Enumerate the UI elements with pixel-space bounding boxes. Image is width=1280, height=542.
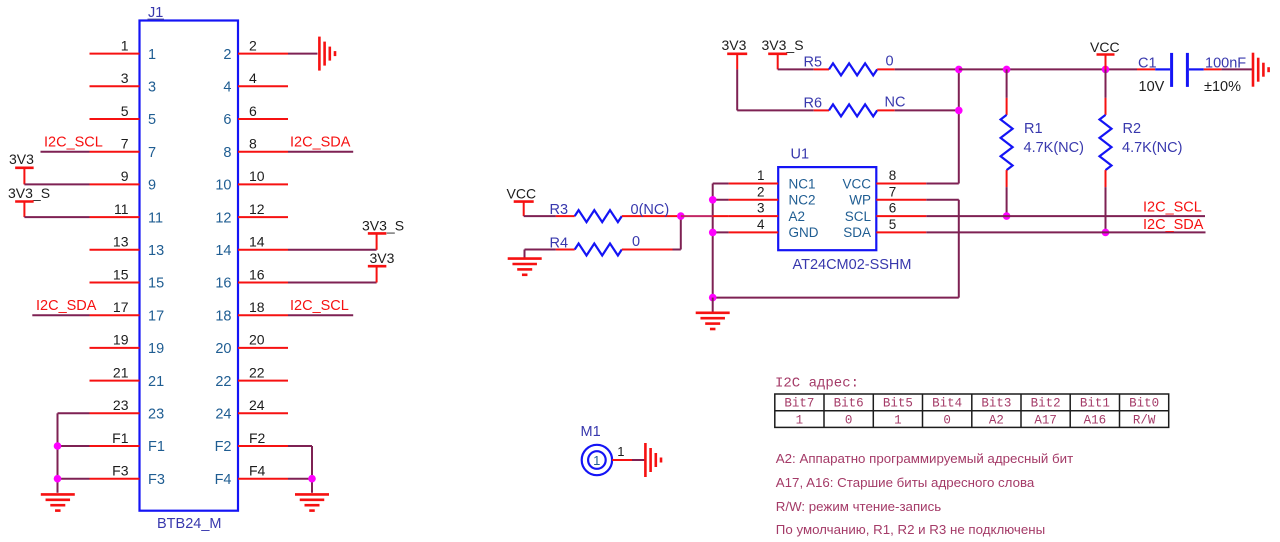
power port 3V3 (top) bbox=[722, 37, 748, 69]
wire pin16 to 3V3 bbox=[288, 266, 377, 282]
svg-text:AT24CM02-SSHM: AT24CM02-SSHM bbox=[793, 257, 912, 273]
wire R6 to vertical bbox=[895, 109, 959, 111]
J1 pin 22 (right) bbox=[215, 364, 288, 389]
resistor R2 bbox=[1100, 69, 1112, 232]
J1 pin 11 (left) bbox=[90, 201, 164, 226]
ground (below J1 left) bbox=[41, 494, 75, 510]
J1 pin 18 (right) bbox=[215, 299, 288, 324]
svg-text:Bit3: Bit3 bbox=[981, 397, 1011, 411]
svg-text:R5: R5 bbox=[804, 55, 823, 71]
svg-text:U1: U1 bbox=[791, 147, 810, 163]
resistor R6 bbox=[814, 104, 895, 116]
svg-text:3: 3 bbox=[121, 70, 129, 86]
svg-text:0: 0 bbox=[886, 54, 894, 70]
svg-text:NC2: NC2 bbox=[789, 193, 816, 208]
svg-text:R3: R3 bbox=[550, 202, 569, 218]
U1 pin 6 SCL bbox=[845, 201, 927, 224]
svg-text:16: 16 bbox=[249, 266, 265, 282]
svg-text:F4: F4 bbox=[215, 472, 232, 488]
svg-text:20: 20 bbox=[249, 332, 265, 348]
svg-text:14: 14 bbox=[215, 243, 231, 259]
svg-text:23: 23 bbox=[148, 407, 164, 423]
wire vertical R5/R6 to U1 VCC bbox=[926, 69, 959, 183]
svg-text:10: 10 bbox=[249, 168, 265, 184]
svg-text:F1: F1 bbox=[148, 439, 165, 455]
J1 pin 5 (left) bbox=[90, 103, 157, 128]
svg-text:4: 4 bbox=[223, 80, 231, 96]
power port VCC (top) bbox=[1090, 39, 1120, 69]
junction R2/SDA bbox=[1102, 229, 1110, 237]
svg-text:16: 16 bbox=[215, 276, 231, 292]
svg-text:R1: R1 bbox=[1024, 121, 1043, 137]
wire I2C_SDA net bbox=[926, 231, 1205, 233]
svg-text:3V3_S: 3V3_S bbox=[362, 218, 404, 234]
svg-text:5: 5 bbox=[121, 103, 129, 119]
svg-text:7: 7 bbox=[148, 145, 156, 161]
svg-text:10: 10 bbox=[215, 178, 231, 194]
svg-text:R2: R2 bbox=[1123, 121, 1142, 137]
resistor R5 bbox=[814, 63, 895, 75]
J1 pin 4 (right) bbox=[223, 70, 288, 95]
svg-text:7: 7 bbox=[889, 184, 897, 199]
svg-text:Bit4: Bit4 bbox=[932, 397, 962, 411]
junction at F4 bbox=[308, 475, 316, 483]
M1 pin 1 wire bbox=[612, 444, 644, 460]
J1 pin 21 (left) bbox=[90, 364, 165, 389]
power port 3V3_S (top) bbox=[762, 37, 804, 69]
J1 pin 16 (right) bbox=[215, 266, 288, 291]
svg-text:I2C_SCL: I2C_SCL bbox=[290, 298, 349, 314]
wire R4 up to R3 junction bbox=[673, 216, 681, 249]
svg-text:24: 24 bbox=[249, 397, 265, 413]
svg-text:0(NC): 0(NC) bbox=[631, 202, 670, 218]
J1 pin 6 (right) bbox=[223, 103, 288, 128]
wire pin23 to ground bus bbox=[58, 413, 90, 493]
svg-text:A2: A2 bbox=[789, 209, 806, 224]
svg-text:A17, A16: Старшие биты адресно: A17, A16: Старшие биты адресного слова bbox=[776, 475, 1035, 490]
svg-text:6: 6 bbox=[249, 103, 257, 119]
svg-text:I2C_SDA: I2C_SDA bbox=[1143, 217, 1204, 233]
resistor R4 bbox=[556, 244, 673, 256]
junction R1 top bbox=[1003, 66, 1011, 74]
svg-text:1: 1 bbox=[121, 37, 129, 53]
svg-text:1: 1 bbox=[593, 453, 600, 468]
wire GND under U1 to WP bbox=[713, 200, 959, 298]
J1 pin 2 (right) bbox=[223, 37, 288, 62]
wire VCC to R3 bbox=[524, 215, 556, 217]
svg-text:F1: F1 bbox=[112, 430, 129, 446]
svg-text:11: 11 bbox=[148, 210, 163, 226]
svg-text:17: 17 bbox=[113, 299, 129, 315]
svg-text:0: 0 bbox=[632, 234, 640, 250]
svg-text:A2: A2 bbox=[989, 413, 1004, 427]
resistor R1 bbox=[1001, 69, 1013, 216]
svg-text:18: 18 bbox=[249, 299, 265, 315]
junction GND pin4 bbox=[709, 229, 717, 237]
svg-text:±10%: ±10% bbox=[1204, 79, 1241, 95]
svg-text:3V3: 3V3 bbox=[9, 151, 34, 167]
svg-text:Bit5: Bit5 bbox=[883, 397, 913, 411]
junction VCC/R2/C1 bbox=[1102, 66, 1110, 74]
wire pin14 to 3V3_S bbox=[288, 233, 377, 249]
power port VCC (left) bbox=[507, 186, 537, 217]
junction gnd bus bbox=[709, 294, 717, 302]
wire NC bus vertical bbox=[713, 184, 729, 298]
svg-text:15: 15 bbox=[113, 266, 129, 282]
svg-text:6: 6 bbox=[889, 201, 897, 216]
J1 pin 23 (left) bbox=[90, 397, 165, 422]
wire VCC rail bbox=[959, 68, 1137, 70]
svg-text:18: 18 bbox=[215, 308, 231, 324]
svg-text:1: 1 bbox=[148, 47, 156, 63]
svg-text:A2: Аппаратно программируемый: A2: Аппаратно программируемый адресный б… bbox=[776, 451, 1073, 466]
U1 pin 2 NC2 bbox=[729, 184, 816, 207]
J1 pin 24 (right) bbox=[215, 397, 288, 422]
svg-text:A16: A16 bbox=[1084, 413, 1107, 427]
U1 pin 8 VCC bbox=[842, 168, 926, 191]
svg-text:3V3_S: 3V3_S bbox=[8, 185, 50, 201]
J1 pin 17 (left) bbox=[90, 299, 165, 324]
svg-text:По умолчанию, R1, R2 и R3 не п: По умолчанию, R1, R2 и R3 не подключены bbox=[776, 522, 1045, 537]
wire 3V3_S to R5 bbox=[778, 68, 814, 70]
capacitor C1 bbox=[1137, 53, 1221, 87]
power port 3V3 (left) bbox=[9, 151, 34, 184]
resistor R3 bbox=[556, 210, 678, 222]
wire C1 to ground bbox=[1221, 68, 1252, 70]
IC U1 body bbox=[778, 167, 876, 250]
svg-text:R/W: R/W bbox=[1133, 413, 1156, 427]
wire pin2 to ground bbox=[288, 53, 318, 55]
svg-text:1: 1 bbox=[796, 413, 804, 427]
ground (R4) bbox=[524, 250, 526, 259]
J1 pin 12 (right) bbox=[215, 201, 288, 226]
svg-text:F2: F2 bbox=[215, 439, 232, 455]
svg-text:17: 17 bbox=[148, 308, 164, 324]
svg-text:19: 19 bbox=[113, 332, 129, 348]
wire pin8 bbox=[288, 151, 353, 153]
svg-text:Bit7: Bit7 bbox=[784, 397, 814, 411]
svg-text:R4: R4 bbox=[550, 236, 569, 252]
svg-text:0: 0 bbox=[845, 413, 853, 427]
svg-text:21: 21 bbox=[113, 364, 129, 380]
svg-text:13: 13 bbox=[113, 234, 129, 250]
svg-text:VCC: VCC bbox=[842, 176, 871, 191]
wire F2 to ground bus bbox=[288, 446, 312, 493]
junction R5 rail bbox=[955, 66, 963, 74]
svg-text:9: 9 bbox=[121, 168, 129, 184]
svg-text:4.7K(NC): 4.7K(NC) bbox=[1024, 140, 1084, 156]
svg-text:I2C_SDA: I2C_SDA bbox=[36, 298, 97, 314]
wire R5 to rail bbox=[895, 68, 959, 70]
svg-text:R/W: режим чтение-запись: R/W: режим чтение-запись bbox=[776, 499, 941, 514]
J1 pin 15 (left) bbox=[90, 266, 165, 291]
svg-text:I2C адрес:: I2C адрес: bbox=[775, 376, 859, 392]
svg-text:NC1: NC1 bbox=[789, 176, 816, 191]
svg-text:I2C_SCL: I2C_SCL bbox=[44, 135, 103, 151]
svg-text:SDA: SDA bbox=[843, 225, 871, 240]
svg-text:22: 22 bbox=[249, 364, 265, 380]
svg-text:8: 8 bbox=[223, 145, 231, 161]
junction at F3 bbox=[54, 475, 62, 483]
U1 pin 4 GND bbox=[729, 217, 819, 240]
wire pin9 to 3V3 bbox=[24, 183, 89, 185]
J1 pin 19 (left) bbox=[90, 332, 165, 357]
U1 pin 5 SDA bbox=[843, 217, 926, 240]
svg-text:1: 1 bbox=[894, 413, 902, 427]
svg-text:3V3_S: 3V3_S bbox=[762, 37, 804, 53]
J1 pin 7 (left) bbox=[90, 136, 157, 161]
wire I2C_SCL net bbox=[926, 215, 1205, 217]
svg-text:4: 4 bbox=[757, 217, 765, 232]
junction NC2 bbox=[709, 196, 717, 204]
J1 pin 10 (right) bbox=[215, 168, 288, 193]
svg-text:4.7K(NC): 4.7K(NC) bbox=[1122, 140, 1182, 156]
J1 pin F3 (left) bbox=[90, 463, 165, 488]
svg-text:Bit2: Bit2 bbox=[1031, 397, 1061, 411]
svg-text:15: 15 bbox=[148, 276, 164, 292]
svg-text:24: 24 bbox=[215, 407, 231, 423]
svg-text:I2C_SDA: I2C_SDA bbox=[290, 135, 351, 151]
svg-text:21: 21 bbox=[148, 374, 164, 390]
ground (C1) bbox=[1253, 53, 1269, 87]
J1 pin 9 (left) bbox=[90, 168, 157, 193]
svg-text:12: 12 bbox=[249, 201, 265, 217]
svg-text:7: 7 bbox=[121, 136, 129, 152]
svg-text:1: 1 bbox=[617, 444, 624, 459]
junction at F1 bbox=[54, 442, 62, 450]
J1 pin 14 (right) bbox=[215, 234, 288, 259]
svg-text:19: 19 bbox=[148, 341, 164, 357]
svg-text:F3: F3 bbox=[148, 472, 165, 488]
table value cells bbox=[796, 413, 1156, 427]
junction R1/SCL bbox=[1003, 212, 1011, 220]
wire A2 net bbox=[681, 215, 729, 217]
svg-text:VCC: VCC bbox=[1090, 39, 1120, 55]
connector J1 body bbox=[140, 21, 239, 511]
svg-text:NC: NC bbox=[885, 95, 906, 111]
svg-text:11: 11 bbox=[114, 201, 129, 217]
table header cells bbox=[784, 397, 1159, 411]
I2C address table bbox=[775, 394, 1169, 427]
power port 3V3 (right) bbox=[368, 250, 395, 266]
ground (below J1 right) bbox=[295, 494, 329, 510]
wire pin17 bbox=[32, 314, 89, 316]
junction R3/R4 bbox=[677, 212, 685, 220]
svg-text:12: 12 bbox=[215, 210, 231, 226]
mounting hole M1 bbox=[582, 445, 612, 475]
J1 pin 13 (left) bbox=[90, 234, 165, 259]
wire F3 bbox=[58, 478, 90, 480]
svg-text:A17: A17 bbox=[1034, 413, 1057, 427]
svg-text:0: 0 bbox=[943, 413, 951, 427]
svg-text:3: 3 bbox=[757, 201, 765, 216]
svg-text:C1: C1 bbox=[1138, 55, 1157, 71]
svg-text:23: 23 bbox=[113, 397, 129, 413]
J1 pin F2 (right) bbox=[215, 430, 288, 455]
svg-text:2: 2 bbox=[223, 47, 231, 63]
svg-text:WP: WP bbox=[849, 193, 871, 208]
designator J1 bbox=[148, 5, 165, 21]
J1 pin 3 (left) bbox=[90, 70, 157, 95]
svg-text:5: 5 bbox=[889, 217, 897, 232]
svg-text:GND: GND bbox=[789, 225, 819, 240]
svg-text:Bit6: Bit6 bbox=[834, 397, 864, 411]
J1 pin 8 (right) bbox=[223, 136, 288, 161]
svg-text:10V: 10V bbox=[1139, 79, 1165, 95]
svg-text:F2: F2 bbox=[249, 430, 266, 446]
wire gnd to R4 bbox=[525, 249, 556, 251]
svg-text:8: 8 bbox=[889, 168, 897, 183]
svg-text:M1: M1 bbox=[581, 424, 601, 440]
J1 pin F4 (right) bbox=[215, 463, 288, 488]
svg-text:4: 4 bbox=[249, 70, 257, 86]
svg-text:Bit1: Bit1 bbox=[1080, 397, 1110, 411]
svg-text:8: 8 bbox=[249, 136, 257, 152]
svg-text:VCC: VCC bbox=[507, 186, 537, 202]
svg-text:14: 14 bbox=[249, 234, 265, 250]
power port 3V3_S (right) bbox=[362, 218, 404, 234]
svg-text:22: 22 bbox=[215, 374, 231, 390]
junction R6 bbox=[955, 107, 963, 115]
wire pin18 bbox=[288, 314, 353, 316]
svg-text:BTB24_M: BTB24_M bbox=[157, 516, 221, 532]
svg-text:R6: R6 bbox=[804, 96, 823, 112]
svg-text:5: 5 bbox=[148, 112, 156, 128]
svg-text:I2C_SCL: I2C_SCL bbox=[1143, 200, 1202, 216]
ground (below U1) bbox=[712, 298, 714, 313]
svg-text:2: 2 bbox=[249, 37, 257, 53]
power port 3V3_S (left) bbox=[8, 185, 50, 217]
wire pin11 to 3V3_S bbox=[24, 216, 89, 218]
J1 pin 20 (right) bbox=[215, 332, 288, 357]
ground (J1 pin 2) bbox=[319, 37, 335, 71]
J1 pin F1 (left) bbox=[90, 430, 165, 455]
wire 3V3 to R6 bbox=[737, 69, 814, 110]
U1 pin 1 NC1 bbox=[729, 168, 816, 191]
svg-text:Bit0: Bit0 bbox=[1129, 397, 1159, 411]
svg-text:3V3: 3V3 bbox=[370, 250, 395, 266]
ground (M1) bbox=[645, 443, 661, 477]
svg-text:F3: F3 bbox=[112, 463, 129, 479]
U1 pin 7 WP bbox=[849, 184, 926, 207]
wire pin7 bbox=[41, 151, 90, 153]
svg-text:9: 9 bbox=[148, 178, 156, 194]
svg-text:SCL: SCL bbox=[845, 209, 872, 224]
svg-text:F4: F4 bbox=[249, 463, 266, 479]
wire F4 bbox=[288, 478, 312, 480]
svg-text:13: 13 bbox=[148, 243, 164, 259]
J1 pin 1 (left) bbox=[90, 37, 157, 62]
svg-text:3: 3 bbox=[148, 80, 156, 96]
svg-text:1: 1 bbox=[757, 168, 765, 183]
svg-text:2: 2 bbox=[757, 184, 765, 199]
U1 pin 3 A2 bbox=[729, 201, 805, 224]
svg-text:6: 6 bbox=[223, 112, 231, 128]
wire F1 bbox=[58, 445, 90, 447]
svg-text:20: 20 bbox=[215, 341, 231, 357]
svg-text:3V3: 3V3 bbox=[722, 37, 747, 53]
